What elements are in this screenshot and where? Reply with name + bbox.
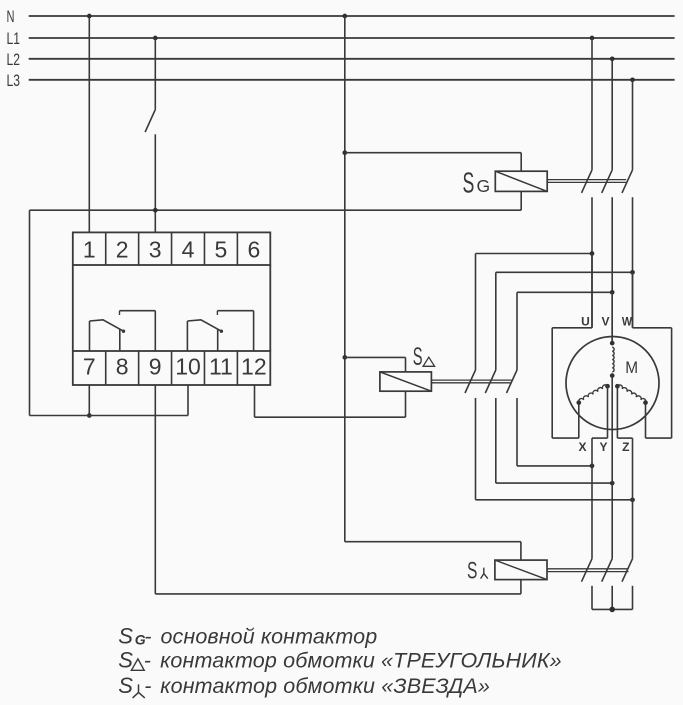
svg-text:L2: L2 (7, 50, 21, 69)
svg-text:12: 12 (241, 354, 267, 380)
svg-text:9: 9 (149, 354, 162, 380)
svg-text:S: S (467, 558, 477, 585)
svg-text:8: 8 (116, 354, 129, 380)
svg-text:1: 1 (83, 237, 96, 263)
svg-text:L1: L1 (7, 29, 21, 48)
svg-text:G: G (477, 176, 491, 196)
svg-text:контактор обмотки «ТРЕУГОЛЬНИК: контактор обмотки «ТРЕУГОЛЬНИК» (160, 648, 562, 672)
svg-text:2: 2 (116, 237, 129, 263)
svg-text:U: U (581, 315, 590, 329)
svg-text:3: 3 (149, 237, 162, 263)
svg-text:11: 11 (209, 354, 233, 380)
svg-text:W: W (622, 315, 633, 329)
svg-text:S: S (118, 624, 133, 649)
svg-text:S: S (413, 343, 423, 371)
svg-text:Y: Y (599, 440, 607, 454)
svg-text:V: V (601, 315, 609, 329)
svg-text:S: S (118, 673, 133, 698)
svg-text:L3: L3 (7, 71, 21, 90)
svg-text:N: N (7, 7, 15, 26)
svg-text:6: 6 (247, 237, 260, 263)
svg-text:S: S (118, 647, 133, 672)
svg-text:основной контактор: основной контактор (161, 625, 378, 649)
svg-text:10: 10 (175, 354, 201, 380)
svg-text:7: 7 (83, 354, 96, 380)
svg-text:S: S (463, 168, 475, 200)
svg-text:5: 5 (215, 237, 228, 263)
svg-text:4: 4 (182, 237, 195, 263)
svg-text:M: M (625, 359, 638, 377)
svg-text:-: - (144, 648, 151, 672)
svg-text:контактор обмотки «ЗВЕЗДА»: контактор обмотки «ЗВЕЗДА» (160, 674, 490, 698)
svg-text:X: X (578, 440, 586, 454)
svg-text:-: - (144, 625, 151, 649)
svg-text:-: - (144, 674, 151, 698)
svg-text:Z: Z (622, 440, 629, 454)
